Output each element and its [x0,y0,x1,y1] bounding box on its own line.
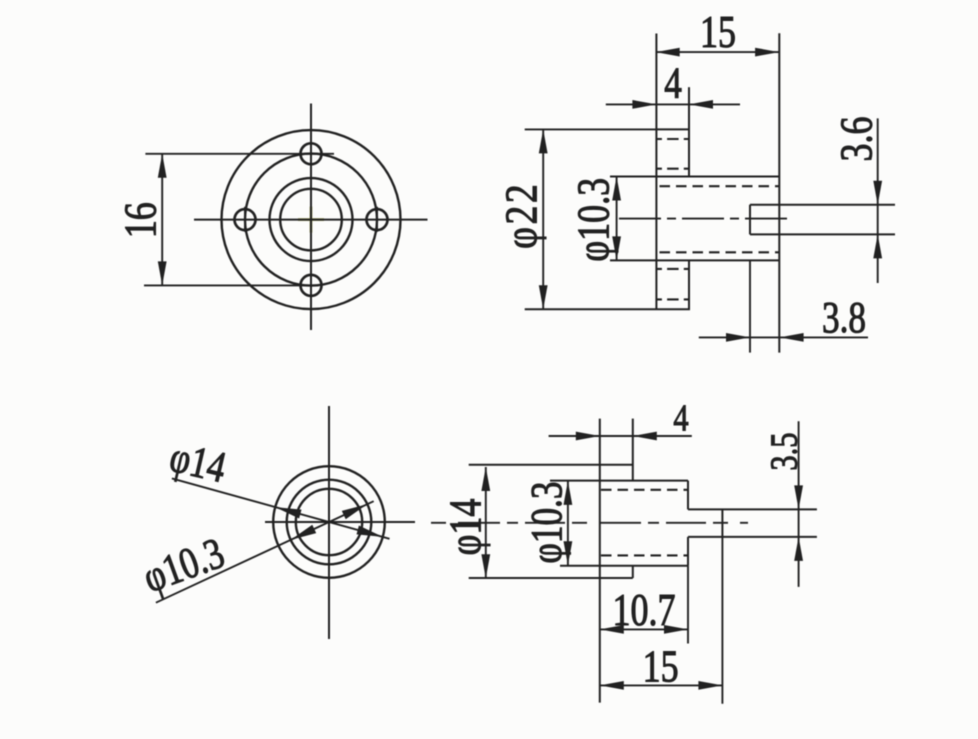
svg-text:3.8: 3.8 [822,292,866,342]
svg-text:φ22: φ22 [496,182,546,249]
svg-text:3.5: 3.5 [763,433,805,471]
svg-text:10.7: 10.7 [613,585,676,635]
svg-text:φ14: φ14 [441,499,491,556]
svg-text:3.6: 3.6 [832,117,882,162]
svg-text:16: 16 [116,202,166,238]
svg-text:15: 15 [643,642,679,692]
svg-text:φ10.3: φ10.3 [136,527,230,602]
svg-text:φ10.3: φ10.3 [569,178,619,262]
svg-text:4: 4 [673,397,688,439]
svg-text:φ14: φ14 [165,431,230,492]
svg-text:4: 4 [664,58,682,108]
svg-text:φ10.3: φ10.3 [521,482,571,564]
svg-text:15: 15 [700,7,736,57]
